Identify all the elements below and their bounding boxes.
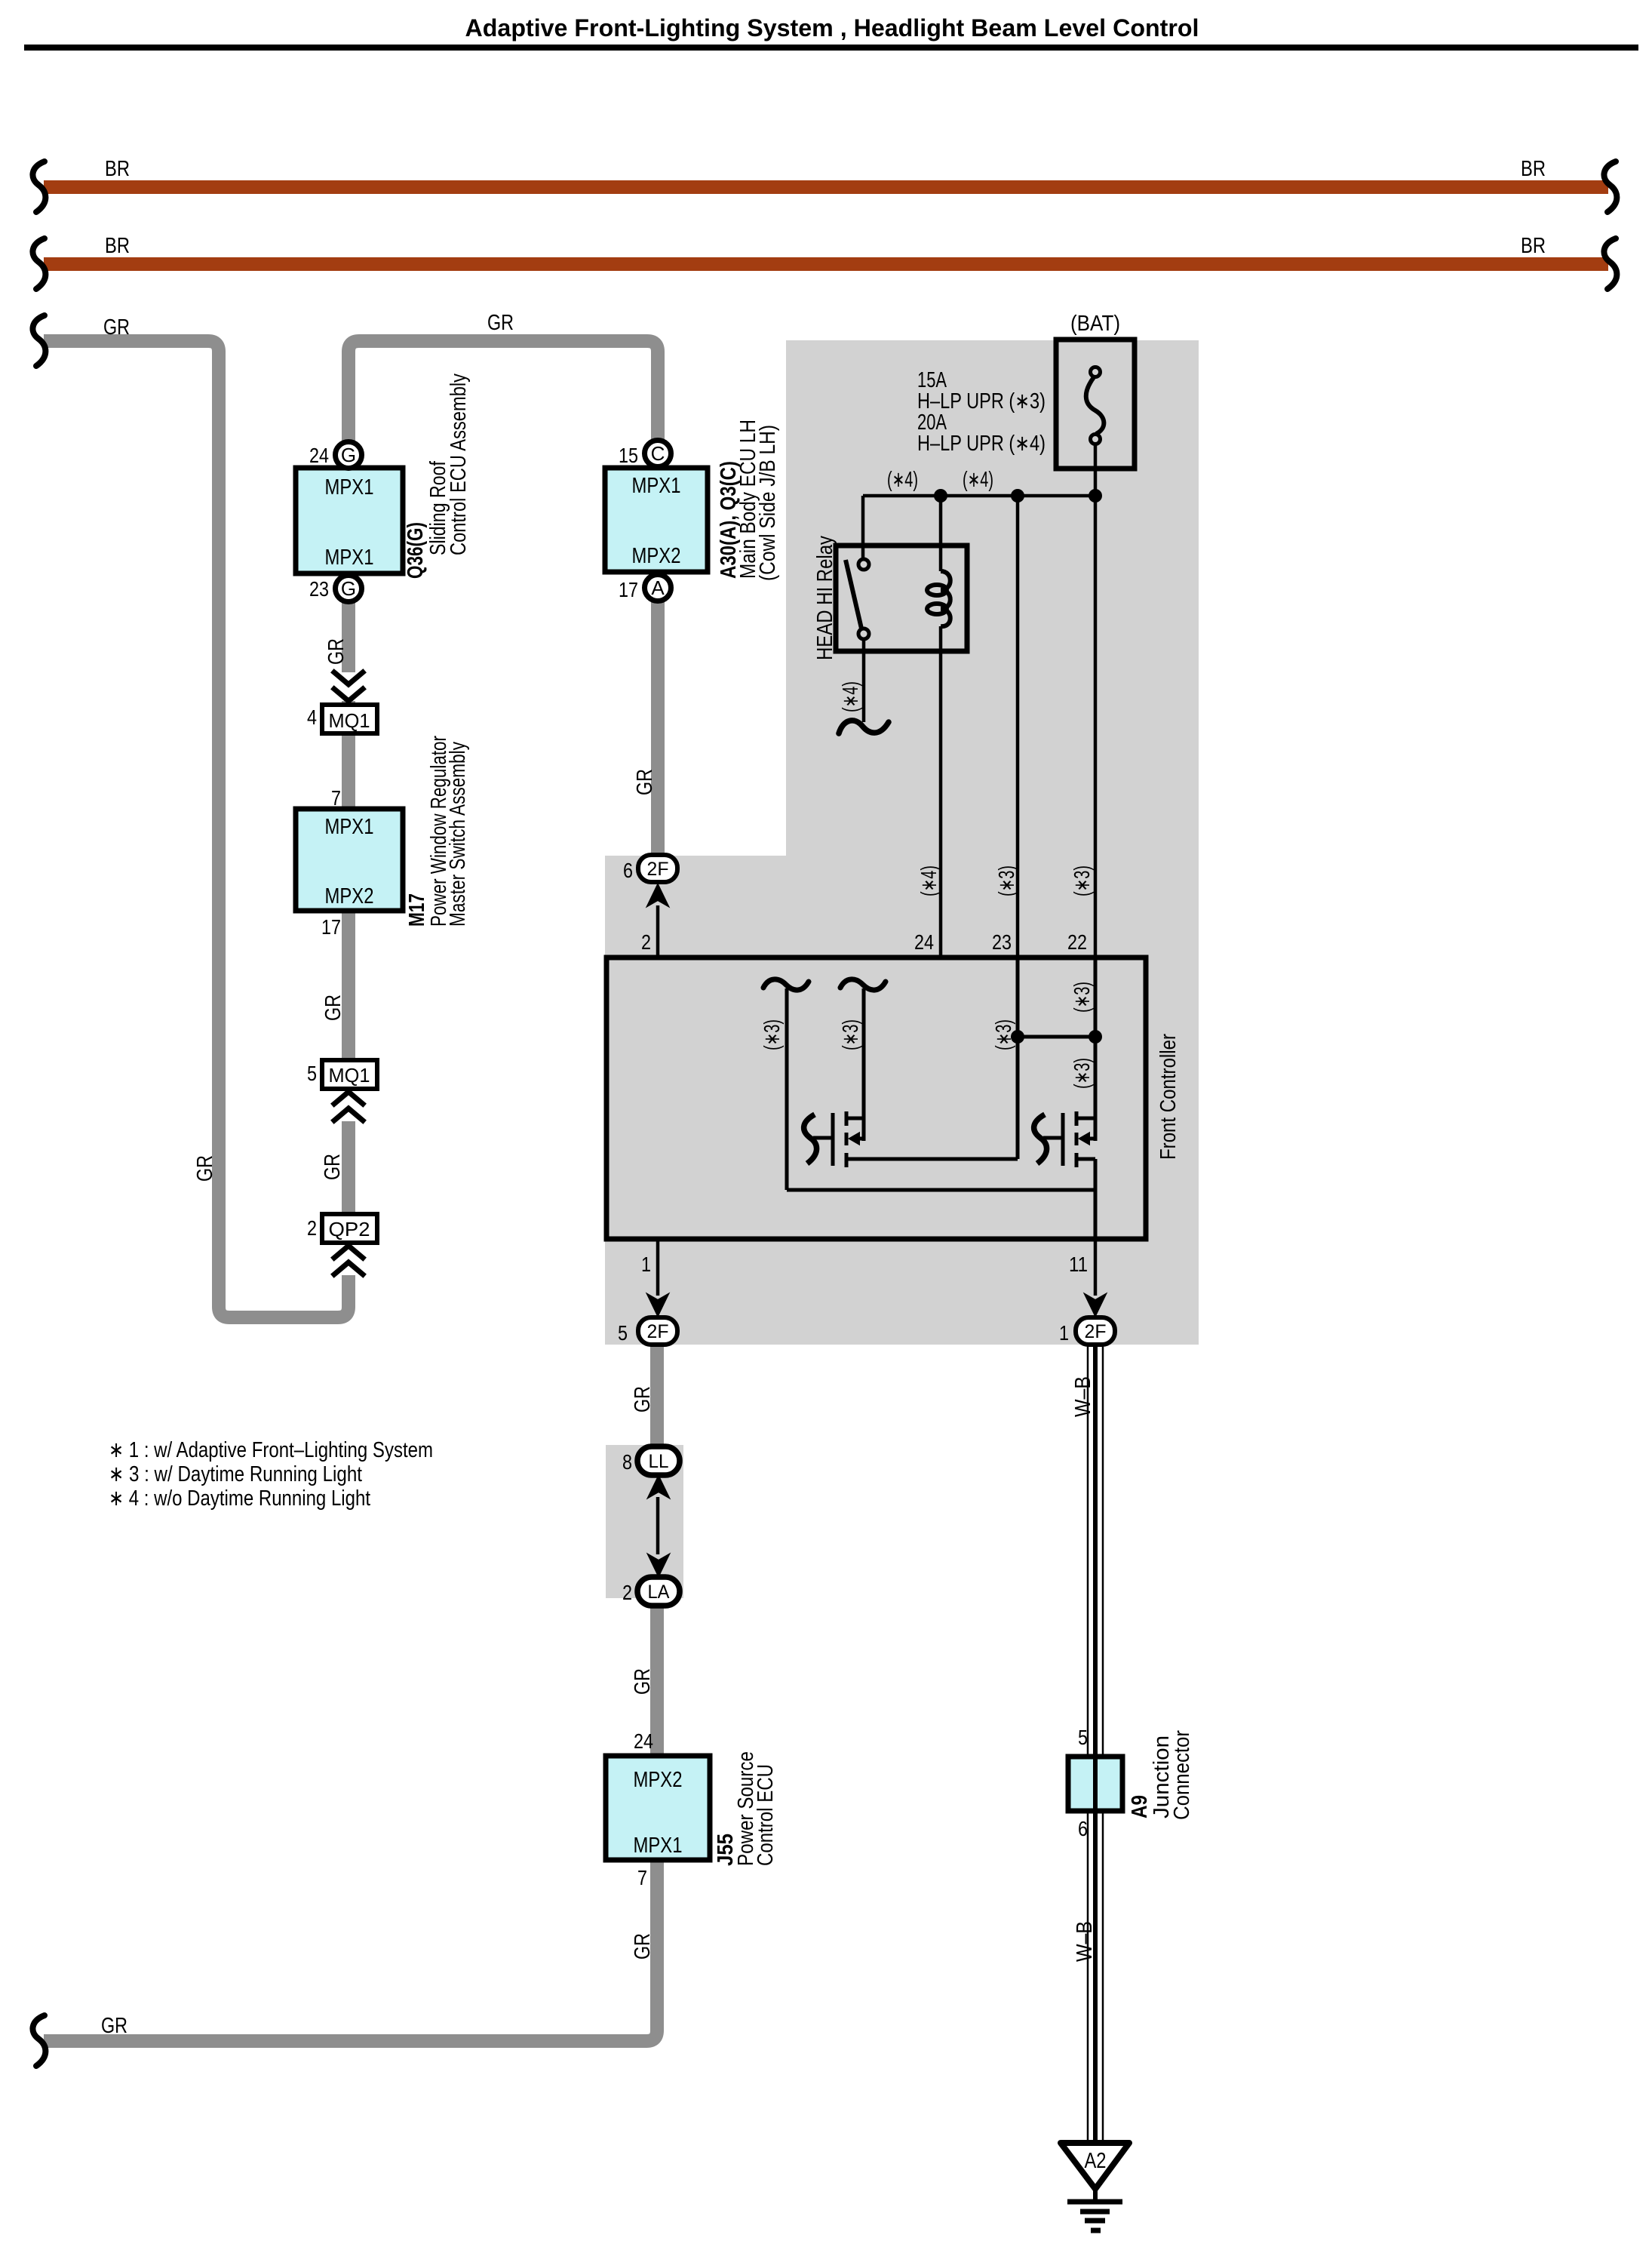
svg-text:MQ1: MQ1 bbox=[329, 709, 370, 732]
svg-text:GR: GR bbox=[631, 1386, 655, 1413]
svg-text:BR: BR bbox=[1521, 157, 1546, 181]
svg-text:GR: GR bbox=[631, 1668, 655, 1695]
svg-text:22: 22 bbox=[1067, 930, 1087, 954]
svg-text:GR: GR bbox=[101, 2014, 127, 2038]
svg-text:GR: GR bbox=[193, 1155, 217, 1182]
svg-text:23: 23 bbox=[992, 930, 1012, 954]
svg-text:MPX2: MPX2 bbox=[634, 1768, 683, 1792]
svg-text:(BAT): (BAT) bbox=[1070, 312, 1120, 336]
svg-text:(∗4): (∗4) bbox=[839, 681, 863, 712]
svg-text:G: G bbox=[341, 577, 356, 600]
svg-text:A9: A9 bbox=[1128, 1795, 1152, 1818]
svg-text:(∗4): (∗4) bbox=[917, 865, 941, 896]
svg-text:GR: GR bbox=[321, 1154, 345, 1180]
svg-text:GR: GR bbox=[321, 994, 345, 1021]
svg-text:2F: 2F bbox=[647, 1321, 669, 1342]
svg-text:17: 17 bbox=[321, 915, 341, 939]
svg-text:2: 2 bbox=[622, 1581, 632, 1604]
svg-text:17: 17 bbox=[619, 578, 638, 601]
svg-text:∗ 4 : w/o Daytime Running Ligh: ∗ 4 : w/o Daytime Running Light bbox=[109, 1486, 370, 1511]
svg-text:5: 5 bbox=[618, 1321, 628, 1345]
svg-text:QP2: QP2 bbox=[329, 1218, 370, 1240]
svg-text:MPX1: MPX1 bbox=[325, 546, 374, 570]
svg-text:MPX2: MPX2 bbox=[325, 884, 374, 908]
svg-text:1: 1 bbox=[1059, 1321, 1069, 1345]
svg-text:W–B: W–B bbox=[1071, 1376, 1095, 1417]
svg-text:Connector: Connector bbox=[1170, 1730, 1194, 1820]
svg-text:GR: GR bbox=[633, 769, 657, 795]
svg-text:BR: BR bbox=[105, 157, 130, 181]
svg-text:C: C bbox=[651, 442, 665, 465]
svg-text:GR: GR bbox=[631, 1933, 655, 1960]
svg-text:24: 24 bbox=[914, 930, 934, 954]
svg-text:GR: GR bbox=[324, 638, 349, 665]
svg-text:Control ECU Assembly: Control ECU Assembly bbox=[447, 373, 471, 555]
svg-text:6: 6 bbox=[1078, 1817, 1088, 1840]
svg-text:LA: LA bbox=[648, 1582, 670, 1603]
svg-text:GR: GR bbox=[487, 311, 514, 335]
svg-text:(∗3): (∗3) bbox=[1070, 982, 1095, 1013]
svg-text:∗ 3 : w/ Daytime Running Light: ∗ 3 : w/ Daytime Running Light bbox=[109, 1462, 362, 1486]
svg-text:MPX1: MPX1 bbox=[325, 815, 374, 839]
svg-text:2F: 2F bbox=[1085, 1321, 1107, 1342]
svg-text:(∗3): (∗3) bbox=[1070, 865, 1095, 896]
svg-text:5: 5 bbox=[1078, 1726, 1088, 1749]
svg-text:Front Controller: Front Controller bbox=[1156, 1034, 1181, 1160]
svg-text:∗ 1 : w/ Adaptive Front–Lighti: ∗ 1 : w/ Adaptive Front–Lighting System bbox=[109, 1438, 433, 1462]
svg-text:BR: BR bbox=[1521, 234, 1546, 258]
svg-text:(∗3): (∗3) bbox=[839, 1019, 863, 1050]
svg-text:7: 7 bbox=[331, 786, 341, 810]
svg-text:Master Switch Assembly: Master Switch Assembly bbox=[446, 742, 470, 927]
svg-text:(Cowl Side J/B LH): (Cowl Side J/B LH) bbox=[756, 425, 780, 581]
svg-text:HEAD HI Relay: HEAD HI Relay bbox=[813, 536, 837, 660]
svg-text:2F: 2F bbox=[647, 859, 669, 880]
svg-text:MPX2: MPX2 bbox=[632, 544, 681, 568]
svg-text:MPX1: MPX1 bbox=[632, 474, 681, 498]
svg-text:BR: BR bbox=[105, 234, 130, 258]
svg-text:Q36(G): Q36(G) bbox=[404, 522, 428, 579]
svg-text:(∗3): (∗3) bbox=[992, 1019, 1016, 1050]
svg-text:LL: LL bbox=[649, 1451, 669, 1472]
svg-text:A: A bbox=[651, 576, 665, 599]
svg-text:24: 24 bbox=[634, 1729, 653, 1753]
svg-text:MPX1: MPX1 bbox=[325, 475, 374, 500]
svg-text:4: 4 bbox=[307, 705, 317, 729]
svg-text:Adaptive Front-Lighting System: Adaptive Front-Lighting System , Headlig… bbox=[465, 14, 1199, 41]
svg-text:11: 11 bbox=[1069, 1253, 1088, 1276]
svg-text:1: 1 bbox=[641, 1253, 651, 1276]
svg-text:H–LP UPR (∗4): H–LP UPR (∗4) bbox=[917, 432, 1046, 456]
svg-text:6: 6 bbox=[623, 859, 633, 882]
svg-text:M17: M17 bbox=[405, 893, 429, 927]
svg-text:(∗4): (∗4) bbox=[887, 468, 918, 492]
svg-text:(∗4): (∗4) bbox=[963, 468, 993, 492]
svg-text:5: 5 bbox=[307, 1062, 317, 1085]
svg-text:2: 2 bbox=[641, 930, 651, 954]
svg-text:GR: GR bbox=[103, 315, 130, 340]
svg-text:(∗3): (∗3) bbox=[760, 1019, 785, 1050]
svg-text:A2: A2 bbox=[1085, 2149, 1107, 2173]
svg-text:8: 8 bbox=[622, 1450, 632, 1474]
svg-text:24: 24 bbox=[309, 444, 329, 467]
svg-text:23: 23 bbox=[309, 577, 329, 601]
svg-text:2: 2 bbox=[307, 1216, 317, 1240]
svg-text:7: 7 bbox=[637, 1866, 647, 1889]
svg-text:G: G bbox=[341, 444, 356, 466]
svg-text:MPX1: MPX1 bbox=[634, 1834, 683, 1858]
svg-text:15: 15 bbox=[619, 444, 638, 467]
svg-text:W–B: W–B bbox=[1073, 1921, 1097, 1962]
svg-text:Control ECU: Control ECU bbox=[754, 1764, 778, 1866]
svg-text:(∗3): (∗3) bbox=[995, 865, 1019, 896]
svg-text:MQ1: MQ1 bbox=[329, 1064, 370, 1087]
svg-text:(∗3): (∗3) bbox=[1070, 1058, 1095, 1089]
